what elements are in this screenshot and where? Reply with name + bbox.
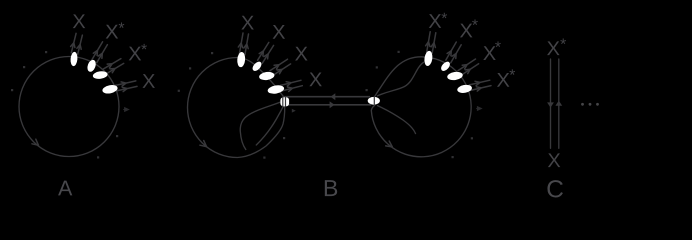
release arrows pair 2 (B2) (446, 42, 461, 63)
pore blob 4 (B1) (267, 84, 285, 95)
pore blob 3 (B2) (447, 71, 464, 81)
membrane B2 (pinched circle, opening at left into channel) (371, 57, 471, 157)
label X* (A3) (129, 47, 141, 61)
tiny right arrow right of circle A (123, 108, 129, 112)
right-pointing arrow on bottom line (330, 101, 335, 108)
dots around circle B2 (366, 51, 474, 158)
channel top line (284, 96, 370, 98)
panel letter B (325, 180, 337, 196)
release arrows pair 4 (B1) (281, 80, 303, 91)
pore blob 1 (B1) (237, 52, 246, 68)
pore blob 3 (A) (92, 70, 108, 79)
up arrowhead (555, 101, 562, 106)
label X (B1-2) (273, 25, 285, 39)
arrowhead on circle B1 (bottom-left) (200, 141, 207, 147)
pore blob 2 (B1) (251, 60, 263, 73)
left-pointing arrow on top line (331, 93, 336, 100)
tiny right arrow right of circle B2 (476, 107, 482, 111)
label X (A1) (73, 14, 85, 28)
compartment circle A (19, 57, 119, 157)
channel bottom line (284, 104, 371, 106)
arrowhead on circle A (bottom-left, pointing down-right) (32, 139, 39, 145)
reaction line up (right) (558, 59, 560, 148)
channel pore right (B2 connector) (368, 97, 380, 105)
inner spiral upper (B1) (240, 101, 282, 149)
label X (B1-1) (241, 16, 253, 30)
release arrows pair 2 (A) (92, 42, 108, 63)
panel letter C (547, 180, 563, 197)
panel letter A (58, 181, 72, 196)
release arrows pair 2 (B1) (258, 42, 274, 63)
pore blob 3 (B1) (259, 71, 275, 81)
dots around circle A (11, 51, 118, 159)
label X* (A2) (106, 25, 118, 39)
release arrows pair 3 (B2) (458, 59, 479, 75)
pore blob 2 (A) (86, 59, 97, 73)
inner spiral lower (B2) (378, 106, 416, 134)
pore blob 1 (A) (70, 52, 78, 67)
label X* (B2-2) (460, 24, 472, 38)
arrowhead on circle B2 (bottom-left) (386, 141, 393, 147)
label X* (B2-3) (483, 46, 495, 60)
release arrows pair 4 (A) (115, 81, 137, 92)
release arrows pair 1 (A) (71, 33, 83, 54)
ellipsis dots (581, 103, 599, 106)
release arrows pair 3 (A) (103, 59, 124, 75)
label X (C bottom) (548, 153, 560, 167)
label X* (B2-1) (429, 14, 441, 28)
pore blob 4 (B2) (457, 84, 473, 94)
release arrows pair 1 (B2) (426, 32, 436, 54)
tiny right arrow near B1 connector (292, 109, 296, 113)
inner spiral lower (B1) (256, 105, 284, 145)
down arrowhead (547, 102, 554, 107)
pore blob 2 (B2) (439, 60, 451, 73)
label X* (C top) (547, 41, 559, 55)
inner spiral upper (B2) (378, 62, 424, 96)
membrane B1 (pinched circle, opening at right into channel) (188, 58, 285, 158)
pore blob 1 (B2) (423, 50, 433, 66)
release arrows pair 3 (B1) (270, 59, 291, 75)
label X (B1-4) (309, 73, 321, 87)
channel pore left (B1 connector) (280, 97, 289, 107)
pore blob 4 (A) (102, 84, 119, 95)
label X (B1-3) (295, 47, 307, 61)
label X (A4) (142, 74, 154, 88)
release arrows pair 1 (B1) (238, 33, 248, 55)
reaction line down (left) (550, 59, 552, 148)
dots around circle B1 (178, 52, 286, 159)
label X* (B2-4) (497, 73, 509, 87)
release arrows pair 4 (B2) (469, 80, 491, 91)
